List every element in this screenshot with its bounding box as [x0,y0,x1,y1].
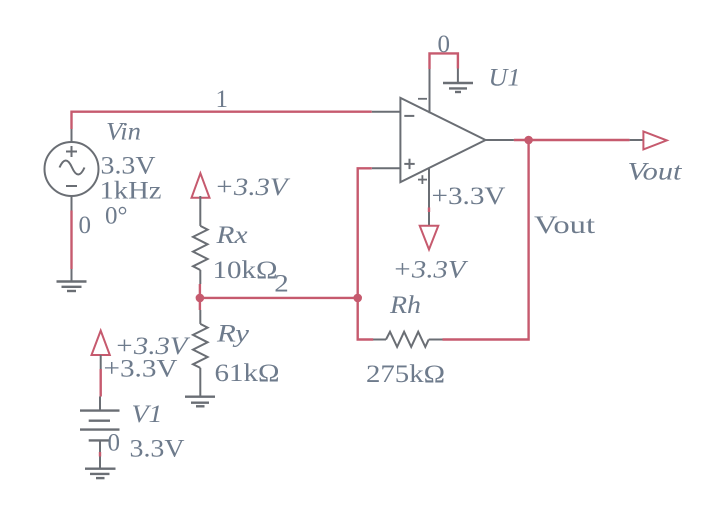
svg-text:0: 0 [108,429,121,456]
resistor Rh [372,332,443,347]
svg-text:1kHz: 1kHz [100,178,162,205]
svg-text:Vout: Vout [628,159,683,186]
svg-text:Rx: Rx [215,222,247,249]
wire net 0 (U1 V- to ground) [430,53,458,69]
ground (Vin) [57,269,87,291]
svg-text:3.3V: 3.3V [130,436,185,463]
wire (Rx to node 2) [199,284,201,298]
wire net 1 [72,112,372,129]
svg-text:0: 0 [79,212,92,239]
resistor Ry [193,310,208,396]
svg-text:+3.3V: +3.3V [104,356,178,383]
junction node 2 (left dot) [196,294,205,303]
ground (Ry) [185,397,215,407]
voltage source Vin [45,129,99,211]
wire speck (U1 V+ pin) [428,208,430,213]
svg-text:Vin: Vin [106,119,141,146]
wire (node 2 to Ry) [199,298,201,310]
svg-text:Rh: Rh [389,292,421,319]
svg-text:+3.3V: +3.3V [215,174,291,201]
power arrow +3.3V (U1 V+) [420,226,439,250]
wire output (apex to junction to port) [514,139,630,141]
svg-text:1: 1 [216,86,229,113]
svg-text:Vout: Vout [534,212,595,239]
svg-text:+3.3V: +3.3V [393,257,469,284]
wire net 2 [200,297,358,299]
wire (arrow to V1) [100,355,102,397]
svg-text:+3.3V: +3.3V [432,183,506,210]
wire speck (V1 to ground) [99,452,101,457]
svg-text:V1: V1 [132,401,163,428]
junction node 2 [353,294,362,303]
power arrow +3.3V (V1) [92,331,110,355]
wire net 0 (Vin to ground) [70,211,72,270]
wire (node 2 to Rh) [358,298,374,340]
op-amp U1 [372,69,514,226]
output port Vout [630,132,667,150]
svg-text:10kΩ: 10kΩ [213,257,278,284]
wire (+ input to node 2) [358,168,372,298]
svg-text:61kΩ: 61kΩ [215,360,280,387]
ground (U1) [443,69,473,93]
battery V1 [80,397,120,469]
resistor Rx [193,196,208,284]
svg-text:275kΩ: 275kΩ [366,361,445,388]
wire Vout vertical (junction to feedback) [443,140,529,340]
svg-text:0: 0 [438,31,451,58]
svg-text:Ry: Ry [216,321,250,348]
power arrow +3.3V (Rx) [192,173,210,198]
ground (V1) [85,469,116,478]
svg-text:0°: 0° [105,202,128,229]
svg-text:U1: U1 [489,64,521,91]
junction Vout [524,136,533,145]
svg-text:3.3V: 3.3V [101,152,156,179]
